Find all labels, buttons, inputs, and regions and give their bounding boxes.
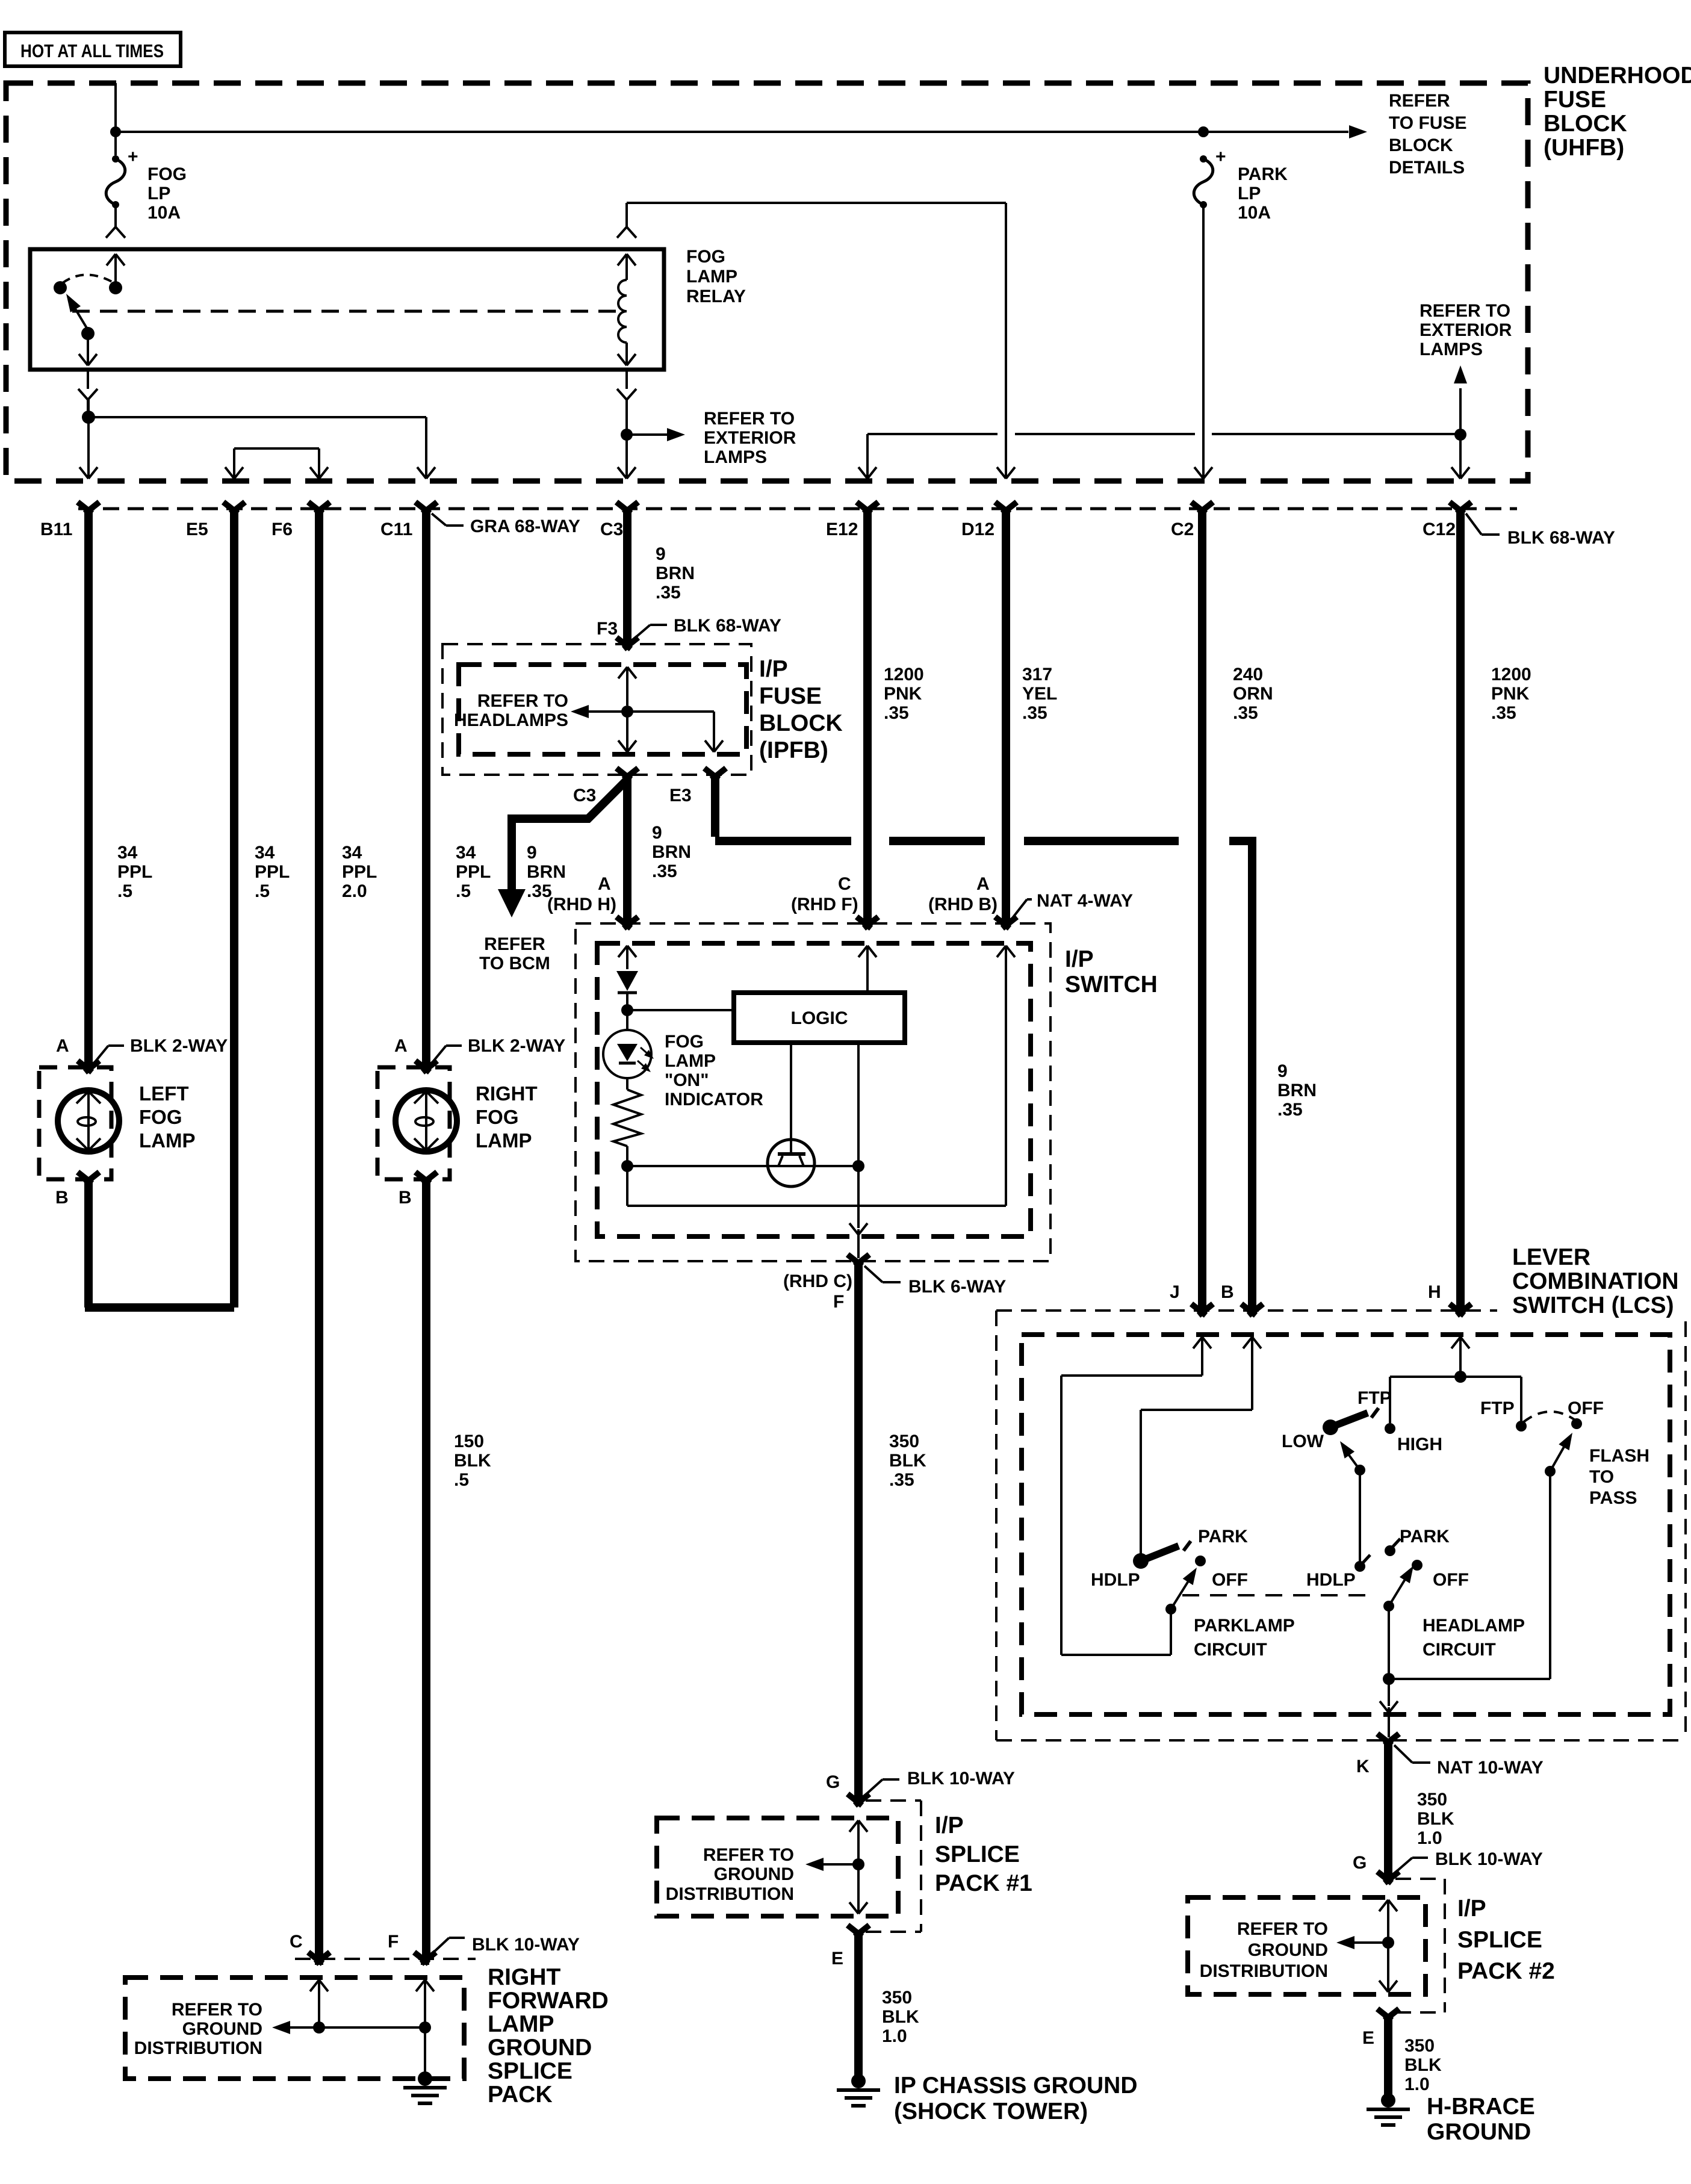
- svg-text:F: F: [388, 1932, 399, 1952]
- relay box FOG LAMP RELAY: [30, 249, 664, 370]
- svg-text:2.0: 2.0: [342, 881, 367, 901]
- svg-text:G: G: [1353, 1853, 1367, 1873]
- label pin J: [1170, 1282, 1180, 1302]
- svg-text:350: 350: [1404, 2036, 1435, 2056]
- node indicator return junction: [621, 1160, 633, 1172]
- svg-text:TO BCM: TO BCM: [479, 954, 550, 973]
- svg-text:C: C: [290, 1932, 303, 1952]
- svg-text:FOG: FOG: [139, 1106, 182, 1128]
- LED fog lamp on indicator: [603, 1010, 654, 1078]
- wire C12 1200 PNK .35 to LCS H: [1456, 513, 1465, 1309]
- connector pin H at LCS: [1450, 1304, 1471, 1315]
- svg-text:BLOCK: BLOCK: [1544, 111, 1627, 137]
- svg-text:PARKLAMP: PARKLAMP: [1194, 1616, 1295, 1636]
- label I/P SPLICE PACK 1: [935, 1813, 1032, 1896]
- connector pin E at splice pack 2: [1362, 2009, 1399, 2048]
- label GRA 68-WAY with leader: [432, 513, 580, 536]
- label pin H: [1428, 1282, 1441, 1302]
- label BLK 2-WAY with leader (right): [432, 1036, 565, 1063]
- node F junction: [852, 1160, 864, 1172]
- svg-text:RIGHT: RIGHT: [488, 1964, 561, 1990]
- label H-BRACE GROUND: [1427, 2094, 1535, 2145]
- svg-text:A: A: [394, 1036, 408, 1056]
- label 240 ORN .35 (C2): [1233, 665, 1273, 723]
- svg-text:BLK 10-WAY: BLK 10-WAY: [472, 1935, 580, 1955]
- wire exterior lamps feed bus at y=721: [867, 433, 1460, 435]
- svg-text:REFER TO: REFER TO: [1237, 1919, 1328, 1939]
- svg-text:A: A: [976, 874, 990, 894]
- svg-text:350: 350: [882, 1988, 912, 2008]
- svg-text:350: 350: [1417, 1790, 1447, 1810]
- wire relay output to box bottom: [79, 333, 97, 365]
- node splice pack 1 junction: [852, 1858, 864, 1870]
- ground splice pack internal arrows: [310, 1980, 434, 2027]
- svg-text:.5: .5: [117, 881, 132, 901]
- wire E 350 BLK 1.0 to IP chassis ground: [854, 1932, 863, 2077]
- wire hot bus from junction to fuse-details arrow: [116, 131, 1348, 133]
- svg-text:EXTERIOR: EXTERIOR: [1420, 320, 1512, 340]
- svg-text:BRN: BRN: [656, 563, 695, 583]
- wire left fog lamp return loop to E5: [85, 1179, 234, 1308]
- connector pin F6: [271, 502, 330, 539]
- svg-text:B: B: [55, 1188, 69, 1208]
- node HIGH contact: [1385, 1423, 1395, 1434]
- node flash-to-pass pivot: [1545, 1466, 1556, 1477]
- svg-text:FORWARD: FORWARD: [488, 1988, 609, 2014]
- wire relay coil feed up and over to D12: [627, 203, 1015, 479]
- connector female half below relay coil pin: [617, 370, 636, 436]
- label 9 BRN .35 (C3 upper): [656, 544, 695, 603]
- label OFF (headlamp): [1433, 1570, 1469, 1590]
- node relay output junction: [82, 411, 95, 424]
- connector pin C12: [1423, 502, 1471, 539]
- label HDLP (parklamp): [1091, 1570, 1140, 1590]
- label 317 YEL .35 (D12): [1022, 665, 1057, 723]
- svg-text:GRA 68-WAY: GRA 68-WAY: [470, 517, 580, 536]
- svg-text:.35: .35: [1233, 703, 1258, 723]
- svg-text:A: A: [598, 874, 611, 894]
- svg-text:.5: .5: [454, 1470, 469, 1490]
- arrow into I/P switch pin A RHD B: [997, 946, 1015, 1206]
- node parklamp OFF contact: [1195, 1556, 1206, 1566]
- svg-text:(RHD B): (RHD B): [928, 895, 998, 914]
- svg-text:FUSE: FUSE: [1544, 87, 1606, 113]
- svg-text:.35: .35: [1277, 1100, 1303, 1120]
- label 9 BRN .35 (C3 lower): [652, 823, 691, 881]
- label UNDERHOOD FUSE BLOCK (UHFB): [1544, 63, 1691, 161]
- svg-text:GROUND: GROUND: [1248, 1940, 1328, 1960]
- connector pin B11: [40, 502, 99, 539]
- label LOW: [1282, 1432, 1324, 1451]
- svg-text:DISTRIBUTION: DISTRIBUTION: [1200, 1961, 1328, 1981]
- connector pin C3: [600, 502, 638, 539]
- svg-text:E5: E5: [186, 520, 208, 539]
- wire K output through LCS bottom: [1380, 1679, 1398, 1737]
- svg-text:9: 9: [652, 823, 662, 843]
- svg-text:DISTRIBUTION: DISTRIBUTION: [134, 2038, 262, 2058]
- arrow flash-to-pass wiper to OFF: [1550, 1433, 1572, 1471]
- label 9 BRN .35 (BCM branch): [527, 843, 566, 901]
- svg-text:LAMP: LAMP: [476, 1129, 532, 1152]
- relay wiper arrow to armature: [66, 294, 88, 330]
- connector pin D12: [961, 502, 1017, 539]
- arrow REFER TO HEADLAMPS: [454, 691, 627, 730]
- label HIGH: [1397, 1435, 1442, 1454]
- arrow dimmer wiper to LOW: [1340, 1441, 1360, 1470]
- svg-text:GROUND: GROUND: [488, 2035, 592, 2061]
- svg-text:OFF: OFF: [1212, 1570, 1248, 1590]
- wire F 350 BLK .35 down to splice pack 1: [854, 1261, 863, 1799]
- ground H-BRACE GROUND: [1367, 2093, 1410, 2125]
- relay coil: [618, 254, 636, 365]
- label BLK 10-WAY with leader (ground splice pack): [431, 1935, 580, 1955]
- component box I/P SPLICE PACK 2 dashed: [1188, 1897, 1426, 1994]
- svg-text:C11: C11: [380, 520, 412, 539]
- label 350 BLK 1.0 (E splice 2): [1404, 2036, 1442, 2094]
- wire C12 feed drop: [1451, 435, 1469, 479]
- svg-text:BLK 2-WAY: BLK 2-WAY: [468, 1036, 565, 1056]
- ground chassis ground at splice pack: [403, 2071, 447, 2103]
- wire coil return to C3 column: [618, 435, 636, 479]
- connector pin C at I/P switch: [857, 917, 878, 928]
- node IPFB junction: [621, 706, 633, 718]
- svg-text:PACK #1: PACK #1: [935, 1870, 1032, 1896]
- label OFF (parklamp): [1212, 1570, 1248, 1590]
- svg-text:RELAY: RELAY: [686, 287, 746, 306]
- svg-text:CIRCUIT: CIRCUIT: [1423, 1640, 1496, 1660]
- label BLK 6-WAY with leader: [864, 1266, 1006, 1297]
- svg-text:H-BRACE: H-BRACE: [1427, 2094, 1535, 2120]
- wire dimmer feed bus: [1390, 1377, 1521, 1423]
- svg-text:1200: 1200: [1491, 665, 1531, 684]
- svg-text:CIRCUIT: CIRCUIT: [1194, 1640, 1267, 1660]
- svg-text:1.0: 1.0: [1417, 1828, 1442, 1848]
- label NAT 4-WAY with leader: [1012, 891, 1133, 919]
- svg-text:F3: F3: [597, 619, 618, 639]
- svg-text:.5: .5: [255, 881, 270, 901]
- component box LCS outer dashed: [996, 1311, 1686, 1740]
- svg-text:E: E: [1362, 2028, 1374, 2048]
- svg-text:B11: B11: [40, 520, 72, 539]
- label (RHD C) and F: [783, 1271, 852, 1312]
- svg-text:34: 34: [117, 843, 138, 863]
- switch SW4 headlamp: [1354, 1539, 1423, 1572]
- node H feed junction: [1454, 1371, 1466, 1383]
- wire thick branch to REFER TO BCM: [498, 780, 627, 917]
- label pin A (right fog lamp): [394, 1036, 408, 1056]
- component box RIGHT FOG LAMP dashed: [377, 1067, 450, 1179]
- label 150 BLK .5: [454, 1432, 491, 1490]
- svg-text:NAT 10-WAY: NAT 10-WAY: [1437, 1758, 1544, 1778]
- label 350 BLK .35: [889, 1432, 926, 1490]
- label HDLP (headlamp): [1306, 1570, 1356, 1590]
- svg-text:C3: C3: [573, 786, 596, 805]
- connector female half below relay output pin: [78, 370, 98, 418]
- component box I/P SWITCH outer dashed: [576, 923, 1050, 1261]
- svg-text:BLK 10-WAY: BLK 10-WAY: [907, 1769, 1015, 1788]
- transistor Q1 driver: [768, 1043, 814, 1187]
- label 1200 PNK .35 (C12): [1491, 665, 1531, 723]
- svg-text:1200: 1200: [884, 665, 924, 684]
- connector pin B at right fog lamp: [415, 1172, 437, 1184]
- label PARK (headlamp): [1400, 1527, 1450, 1546]
- svg-text:H: H: [1428, 1282, 1441, 1302]
- svg-text:PPL: PPL: [255, 862, 290, 882]
- label pin A (RHD H): [547, 874, 616, 914]
- label 34 PPL .5 (C11): [456, 843, 491, 901]
- svg-text:FTP: FTP: [1480, 1398, 1515, 1418]
- svg-text:I/P: I/P: [935, 1813, 964, 1838]
- svg-text:SWITCH (LCS): SWITCH (LCS): [1512, 1292, 1674, 1318]
- svg-text:10A: 10A: [1238, 203, 1271, 223]
- component box LEFT FOG LAMP dashed: [39, 1067, 111, 1179]
- label pin A (RHD B): [928, 874, 998, 914]
- logic box U1 LOGIC: [734, 993, 905, 1043]
- svg-text:B: B: [1221, 1282, 1234, 1302]
- svg-text:(RHD F): (RHD F): [791, 895, 858, 914]
- svg-text:F: F: [833, 1292, 844, 1312]
- svg-text:FOG: FOG: [686, 247, 725, 267]
- ground IP CHASSIS GROUND: [837, 2074, 880, 2106]
- svg-text:LOW: LOW: [1282, 1432, 1324, 1451]
- wire E3 thick bus to LCS B: [715, 775, 1252, 1309]
- wire E 350 BLK 1.0 to H-brace ground: [1384, 2015, 1392, 2095]
- connector pin A at left fog lamp: [78, 1061, 99, 1072]
- arrow up REFER TO EXTERIOR LAMPS right: [1420, 301, 1512, 435]
- label NAT 10-WAY with leader: [1394, 1745, 1544, 1778]
- svg-text:REFER TO: REFER TO: [704, 409, 795, 429]
- connector pin A(RHD B) at I/P switch: [995, 917, 1017, 928]
- svg-text:34: 34: [342, 843, 362, 863]
- svg-text:BLK 10-WAY: BLK 10-WAY: [1435, 1849, 1543, 1869]
- arrow into I/P switch pin A: [618, 946, 636, 969]
- splice pack 1 internal arrows: [849, 1820, 867, 1914]
- svg-text:317: 317: [1022, 665, 1052, 684]
- svg-text:REFER TO: REFER TO: [477, 691, 568, 711]
- svg-text:LAMP: LAMP: [139, 1129, 196, 1152]
- svg-text:PARK: PARK: [1400, 1527, 1450, 1546]
- label FTP (flash to pass): [1480, 1398, 1515, 1418]
- svg-text:10A: 10A: [147, 203, 181, 223]
- component box RIGHT FORWARD LAMP GROUND SPLICE PACK dashed: [125, 1978, 464, 2079]
- svg-text:INDICATOR: INDICATOR: [665, 1090, 763, 1109]
- svg-text:BLOCK: BLOCK: [759, 710, 843, 736]
- node ground splice junction F: [419, 2021, 431, 2034]
- svg-text:.35: .35: [1491, 703, 1516, 723]
- label 9 BRN .35 (LCS B wire): [1277, 1061, 1317, 1120]
- wire E5 34 PPL .5 ground side: [230, 513, 238, 1308]
- svg-text:FUSE: FUSE: [759, 683, 822, 709]
- arrow into LCS pin J: [1193, 1337, 1211, 1376]
- svg-text:E12: E12: [826, 520, 858, 539]
- svg-text:PNK: PNK: [1491, 684, 1530, 704]
- svg-text:GROUND: GROUND: [1427, 2119, 1531, 2145]
- connector pin A at right fog lamp: [415, 1061, 437, 1072]
- arrow REFER TO GROUND DISTRIBUTION (splice pack 1): [666, 1845, 858, 1904]
- svg-text:BRN: BRN: [652, 842, 691, 862]
- splice pack 2 internal arrows: [1379, 1900, 1397, 1992]
- label FOG LAMP ON INDICATOR: [665, 1032, 763, 1109]
- svg-text:RIGHT: RIGHT: [476, 1082, 538, 1105]
- svg-text:PASS: PASS: [1589, 1488, 1637, 1508]
- label I/P SPLICE PACK 2: [1457, 1896, 1555, 1984]
- svg-text:.5: .5: [456, 881, 471, 901]
- connector pin C2: [1171, 502, 1213, 539]
- label BLK 68-WAY with leader: [1466, 513, 1615, 548]
- svg-text:PACK: PACK: [488, 2082, 553, 2108]
- relay mechanical link dashed line to coil: [72, 310, 616, 313]
- component box I/P SPLICE PACK 1 dashed: [657, 1818, 898, 1916]
- svg-text:BLK 6-WAY: BLK 6-WAY: [908, 1277, 1006, 1297]
- label pin A (left fog lamp): [56, 1036, 69, 1056]
- wire K 350 BLK 1.0 to splice pack 2: [1384, 1740, 1392, 1877]
- label BLK 2-WAY with leader (left): [95, 1036, 228, 1063]
- lamp right fog lamp bulb: [396, 1090, 457, 1152]
- label 350 BLK 1.0 (K): [1417, 1790, 1454, 1848]
- svg-text:(IPFB): (IPFB): [759, 737, 828, 763]
- relay armature dashed travel arc: [63, 275, 112, 283]
- svg-text:YEL: YEL: [1022, 684, 1057, 704]
- svg-text:34: 34: [456, 843, 476, 863]
- node headlamp wiper pivot: [1383, 1601, 1394, 1612]
- fuse PARK LP 10A: [1194, 147, 1288, 223]
- arrow REFER TO GROUND DISTRIBUTION (splice pack 2): [1200, 1919, 1388, 1981]
- component box I/P SWITCH inner dashed: [597, 943, 1031, 1236]
- relay armature common node: [109, 281, 122, 294]
- wire indicator return rail to F junction: [627, 1165, 858, 1167]
- node ground splice junction C: [313, 2021, 325, 2034]
- svg-text:D12: D12: [961, 520, 994, 539]
- svg-text:34: 34: [255, 843, 275, 863]
- arrow into I/P switch pin C: [858, 946, 877, 993]
- svg-text:FOG: FOG: [665, 1032, 704, 1052]
- connector pin C11: [380, 502, 437, 539]
- label PARKLAMP CIRCUIT: [1194, 1616, 1295, 1660]
- svg-text:DETAILS: DETAILS: [1389, 158, 1465, 178]
- svg-text:BRN: BRN: [1277, 1081, 1317, 1100]
- node junction on hot feed: [110, 126, 121, 137]
- connector pin F at ground splice pack: [414, 1952, 436, 1965]
- connector pin C at ground splice pack: [308, 1952, 330, 1965]
- svg-text:SPLICE: SPLICE: [1457, 1927, 1542, 1953]
- svg-text:LAMPS: LAMPS: [1420, 340, 1483, 359]
- connector pin G at splice pack 2: [1377, 1872, 1399, 1883]
- wire E12 feed drop: [858, 434, 877, 479]
- svg-text:LOGIC: LOGIC: [791, 1008, 848, 1028]
- label I/P SWITCH: [1065, 946, 1158, 997]
- component box I/P FUSE BLOCK outer dashed: [442, 644, 751, 775]
- svg-text:C12: C12: [1423, 520, 1456, 539]
- svg-text:GROUND: GROUND: [182, 2019, 262, 2039]
- svg-text:(SHOCK TOWER): (SHOCK TOWER): [894, 2099, 1088, 2124]
- label pin B (left fog lamp): [55, 1188, 69, 1208]
- label 350 BLK 1.0 (E splice 1): [882, 1988, 919, 2046]
- label I/P FUSE BLOCK (IPFB): [759, 656, 843, 763]
- svg-text:LP: LP: [1238, 184, 1261, 203]
- connector row dashed line 68-WAY: [78, 507, 1517, 510]
- component box I/P SPLICE PACK 2 connector dashed: [1395, 1879, 1445, 2012]
- svg-text:OFF: OFF: [1568, 1398, 1604, 1418]
- label IP CHASSIS GROUND (SHOCK TOWER): [894, 2073, 1138, 2124]
- svg-text:HDLP: HDLP: [1306, 1570, 1356, 1590]
- wire E12 1200 PNK .35 to I/P switch C: [863, 513, 872, 922]
- svg-text:C2: C2: [1171, 520, 1194, 539]
- svg-text:+: +: [128, 147, 138, 167]
- connector pin B at LCS: [1241, 1304, 1263, 1315]
- label 34 PPL .5 (E5): [255, 843, 290, 901]
- svg-text:B: B: [399, 1188, 412, 1208]
- svg-text:SWITCH: SWITCH: [1065, 972, 1158, 997]
- wire J to parklamp wiper: [1061, 1376, 1202, 1655]
- wire dimmer wiper to HDLP contact: [1359, 1470, 1361, 1566]
- connector pin F3 on IPFB: [597, 619, 638, 649]
- svg-text:HEADLAMP: HEADLAMP: [1423, 1616, 1525, 1636]
- svg-text:BLK: BLK: [1404, 2055, 1442, 2075]
- svg-text:.35: .35: [1022, 703, 1047, 723]
- label pin G (splice pack 2): [1353, 1853, 1367, 1873]
- svg-text:E3: E3: [669, 786, 692, 805]
- fuse FOG LP 10A: [106, 147, 187, 227]
- label FOG LAMP RELAY: [686, 247, 746, 306]
- label pin G (splice pack 1): [826, 1772, 840, 1792]
- svg-text:+: +: [1215, 147, 1226, 167]
- wire right fog lamp return 150 BLK .5: [422, 1179, 430, 1958]
- svg-text:PNK: PNK: [884, 684, 922, 704]
- label pin C (RHD F): [791, 874, 858, 914]
- svg-text:"ON": "ON": [665, 1070, 709, 1090]
- svg-text:BLK 68-WAY: BLK 68-WAY: [674, 616, 781, 636]
- label pin B: [1221, 1282, 1234, 1302]
- svg-text:9: 9: [527, 843, 537, 863]
- wire 9 BRN .35 from C3 down to I/P switch A: [623, 775, 631, 922]
- connector pin B at left fog lamp: [78, 1172, 99, 1184]
- label BLK 68-WAY with leader (F3): [633, 616, 781, 639]
- relay armature moving contact node: [54, 281, 67, 294]
- connector pin E5: [186, 502, 245, 539]
- connector pin J at LCS: [1191, 1304, 1213, 1315]
- connector pin C3 on IPFB bottom: [573, 768, 638, 805]
- arrow REFER TO GROUND DISTRIBUTION (ground splice pack): [134, 2000, 425, 2058]
- label OFF (flash to pass): [1568, 1398, 1604, 1418]
- component box I/P FUSE BLOCK inner dashed: [459, 665, 746, 754]
- svg-text:HOT AT ALL TIMES: HOT AT ALL TIMES: [20, 40, 164, 61]
- svg-text:350: 350: [889, 1432, 919, 1451]
- svg-text:1.0: 1.0: [1404, 2074, 1430, 2094]
- arrow headlamp wiper to OFF: [1389, 1566, 1413, 1606]
- svg-text:BLK 2-WAY: BLK 2-WAY: [130, 1036, 228, 1056]
- svg-text:LEVER: LEVER: [1512, 1244, 1590, 1270]
- svg-text:REFER TO: REFER TO: [172, 2000, 262, 2020]
- svg-text:EXTERIOR: EXTERIOR: [704, 428, 796, 448]
- wire D12 317 YEL .35 to I/P switch A: [1002, 513, 1010, 922]
- connector row dashed (ground splice pack): [295, 1958, 476, 1960]
- wire IPFB internal branch to E3: [627, 712, 723, 752]
- svg-text:LEFT: LEFT: [139, 1082, 188, 1105]
- svg-text:UNDERHOOD: UNDERHOOD: [1544, 63, 1691, 88]
- wire IPFB down to C3 output: [618, 712, 636, 752]
- svg-text:OFF: OFF: [1433, 1570, 1469, 1590]
- connector pin E12: [826, 502, 878, 539]
- wire flash-to-pass return: [1389, 1471, 1550, 1679]
- component box UNDERHOOD FUSE BLOCK (UHFB) dashed border: [6, 83, 1528, 481]
- svg-text:.35: .35: [656, 583, 681, 603]
- svg-text:HEADLAMPS: HEADLAMPS: [454, 710, 568, 730]
- svg-text:9: 9: [656, 544, 666, 564]
- label HEADLAMP CIRCUIT: [1423, 1616, 1525, 1660]
- svg-text:I/P: I/P: [1457, 1896, 1486, 1922]
- svg-text:IP CHASSIS GROUND: IP CHASSIS GROUND: [894, 2073, 1138, 2099]
- svg-text:C: C: [838, 874, 851, 894]
